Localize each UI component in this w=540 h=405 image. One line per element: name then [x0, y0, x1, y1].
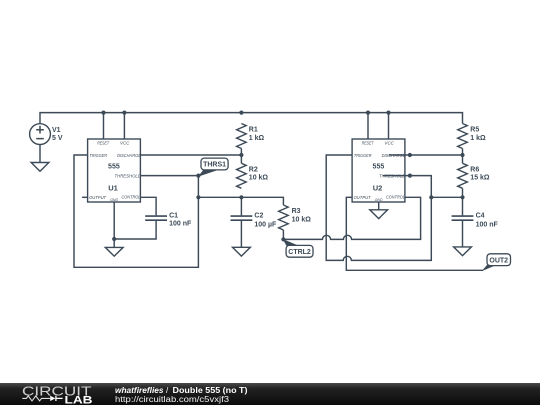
svg-text:100 nF: 100 nF	[476, 221, 499, 228]
svg-text:http://circuitlab.com/c5vxjf3: http://circuitlab.com/c5vxjf3	[115, 395, 230, 404]
svg-text:TRIGGER: TRIGGER	[354, 153, 372, 159]
svg-text:CONTROL: CONTROL	[122, 195, 141, 201]
svg-text:15 kΩ: 15 kΩ	[470, 175, 490, 182]
svg-text:Double 555 (no T): Double 555 (no T)	[173, 386, 248, 395]
svg-text:THRESHOLD: THRESHOLD	[379, 174, 406, 180]
svg-text:VCC: VCC	[385, 141, 395, 147]
svg-text:LAB: LAB	[65, 394, 93, 405]
svg-text:R6: R6	[470, 166, 479, 173]
svg-text:whatfireflies: whatfireflies	[115, 386, 164, 395]
svg-text:R5: R5	[470, 127, 479, 134]
svg-text:R1: R1	[249, 127, 258, 134]
svg-text:RESET: RESET	[362, 141, 375, 147]
svg-text:OUT2: OUT2	[489, 257, 508, 264]
svg-text:U2: U2	[373, 183, 383, 192]
svg-text:CONTROL: CONTROL	[386, 195, 405, 201]
svg-text:THRESHOLD: THRESHOLD	[115, 174, 142, 180]
svg-text:10 kΩ: 10 kΩ	[249, 175, 269, 182]
svg-text:555: 555	[373, 164, 385, 171]
svg-text:VCC: VCC	[120, 141, 130, 147]
svg-text:TRIGGER: TRIGGER	[89, 153, 107, 159]
svg-text:C1: C1	[169, 213, 178, 220]
svg-text:C2: C2	[254, 213, 263, 220]
svg-text:DISCHARGE: DISCHARGE	[117, 153, 141, 159]
svg-text:V1: V1	[52, 127, 61, 134]
svg-text:555: 555	[108, 164, 120, 171]
svg-text:OUTPUT: OUTPUT	[89, 195, 107, 201]
svg-text:1 kΩ: 1 kΩ	[470, 135, 486, 142]
svg-text:GND: GND	[110, 198, 118, 202]
svg-text:100 µF: 100 µF	[254, 221, 277, 228]
svg-text:DISCHARGE: DISCHARGE	[382, 153, 406, 159]
svg-text:OUTPUT: OUTPUT	[354, 195, 372, 201]
svg-text:C4: C4	[476, 213, 485, 220]
svg-text:5 V: 5 V	[52, 135, 63, 142]
svg-text:1 kΩ: 1 kΩ	[249, 135, 265, 142]
svg-text:U1: U1	[108, 183, 118, 192]
svg-text:GND: GND	[375, 198, 383, 202]
svg-text:R3: R3	[292, 208, 301, 215]
svg-text:100 nF: 100 nF	[169, 221, 192, 228]
svg-text:THRS1: THRS1	[203, 162, 226, 169]
svg-text:RESET: RESET	[97, 141, 110, 147]
svg-text:CTRL2: CTRL2	[288, 249, 311, 256]
svg-text:10 kΩ: 10 kΩ	[292, 216, 312, 223]
svg-text:R2: R2	[249, 166, 258, 173]
